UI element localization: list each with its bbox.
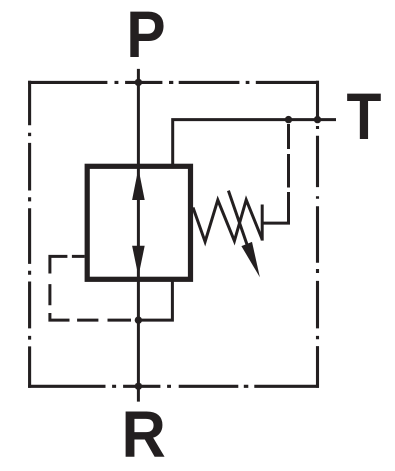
svg-text:R: R <box>122 396 166 471</box>
svg-text:P: P <box>126 0 165 72</box>
svg-text:T: T <box>347 80 382 154</box>
